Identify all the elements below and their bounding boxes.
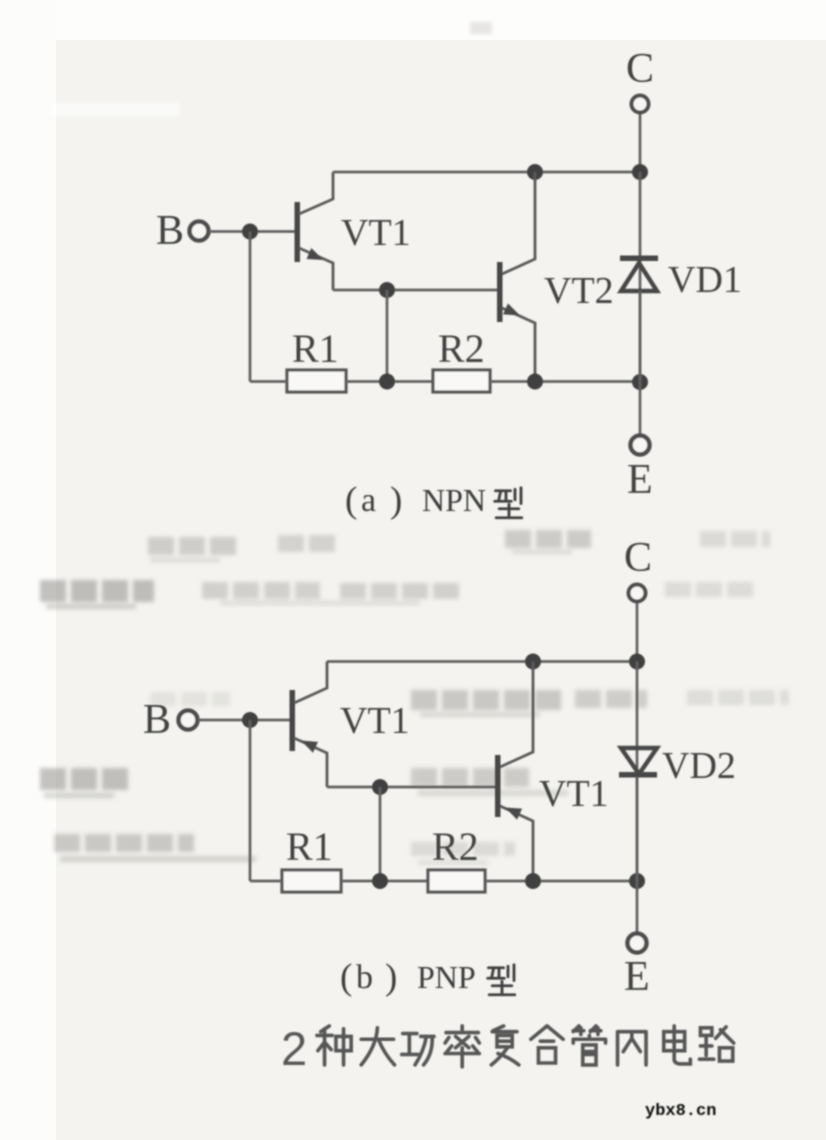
wire B to base VT1 (b) [198,719,290,722]
terminal C (a) [632,96,649,113]
resistor R2 (a) [433,370,490,392]
wire to E terminal (b) [636,881,639,933]
svg-text:B: B [143,697,171,743]
svg-text:C: C [626,46,654,92]
node junction VT2 emitter (a) [527,374,543,390]
resistor R1 (b) [282,870,341,892]
svg-text:VD2: VD2 [662,745,736,787]
node junction VT2 emitter (b) [525,873,541,889]
terminal E (a) [631,436,650,455]
caption (a) NPN [345,480,522,521]
svg-text:): ) [390,480,402,521]
wire rail to VD2 (b) [636,662,639,882]
svg-text:(: ( [345,480,357,521]
transistor VT2 (a) [497,172,614,382]
caption (b) PNP [340,957,515,998]
wire R2 to VT2 emitter node (b) [485,880,637,883]
wire rail to VD1 (a) [639,172,642,382]
transistor VT2 labelled VT1 (b) [495,662,609,882]
wire VD2 to bottom rail (b) [636,777,639,881]
svg-text:VT1: VT1 [341,212,411,254]
svg-text:R1: R1 [292,326,339,371]
svg-text:E: E [627,457,653,503]
svg-text:B: B [156,208,184,254]
svg-text:ybx8.cn: ybx8.cn [645,1102,716,1121]
transistor VT1 (a) [295,172,411,290]
svg-text:VD1: VD1 [668,259,742,301]
svg-text:R2: R2 [432,824,479,869]
svg-text:C: C [624,535,652,581]
wire to E terminal (a) [639,382,642,435]
wire top rail (b) [327,660,637,663]
node junction B branch (b) [242,712,258,728]
wire VT1 emitter to VT2 base (b) [327,786,495,789]
node junction VD1 top on rail (a) [632,164,648,180]
node junction R1-R2 (b) [372,873,388,889]
resistor R2 (b) [428,870,485,892]
node junction VT2 collector on rail (a) [527,164,543,180]
svg-text:): ) [385,957,397,998]
wire R1 to R2 (a) [346,380,433,383]
node junction VD2 bottom (b) [629,873,645,889]
wire B to base VT1 (a) [209,230,295,233]
svg-text:2: 2 [281,1022,307,1075]
wire left branch down to R1 (a) [249,232,252,382]
svg-text:R2: R2 [438,326,485,371]
wire bottom rail left of R1 (b) [250,880,282,883]
wire branch down to R1-R2 node (a) [386,290,389,382]
node junction VD1 bottom (a) [632,374,648,390]
svg-text:PNP: PNP [417,959,476,995]
wire R1 to R2 (b) [341,880,428,883]
svg-text:(: ( [340,957,352,998]
svg-text:NPN: NPN [422,482,486,518]
title caption [281,1022,734,1075]
svg-text:VT1: VT1 [539,773,609,815]
svg-text:a: a [361,482,376,519]
wire C terminal to top rail (a) [639,114,642,172]
svg-text:R1: R1 [286,824,333,869]
svg-text:VT2: VT2 [544,270,614,312]
svg-text:VT1: VT1 [340,700,410,742]
node junction VT2 collector on rail (b) [525,654,541,670]
svg-text:E: E [624,954,650,1000]
node junction VD2 top on rail (b) [629,654,645,670]
terminal B (a) [190,222,209,241]
wire VT1 emitter to VT2 base (a) [333,289,497,292]
diode VD1 (a) [620,256,658,292]
node junction B branch (a) [242,224,258,240]
wire R2 to VT2 emitter node (a) [490,380,640,383]
terminal C (b) [629,585,646,602]
wire bottom rail left of R1 (a) [250,380,287,383]
transistor VT1 (b) [290,662,410,788]
svg-text:b: b [356,959,373,996]
node junction R1-R2 (a) [379,374,395,390]
terminal E (b) [628,934,647,953]
resistor R1 (a) [287,370,346,392]
wire C terminal to top rail (b) [636,603,639,662]
wire branch down to R1-R2 node (b) [379,787,382,881]
wire VD1 to bottom rail (a) [639,291,642,382]
wire top rail (a) [333,171,640,174]
node junction emitter branch (b) [372,779,388,795]
node junction emitter branch (a) [379,282,395,298]
terminal B (b) [179,711,198,730]
wire left branch down to R1 (b) [249,720,252,881]
diode VD2 (b) [619,748,657,778]
